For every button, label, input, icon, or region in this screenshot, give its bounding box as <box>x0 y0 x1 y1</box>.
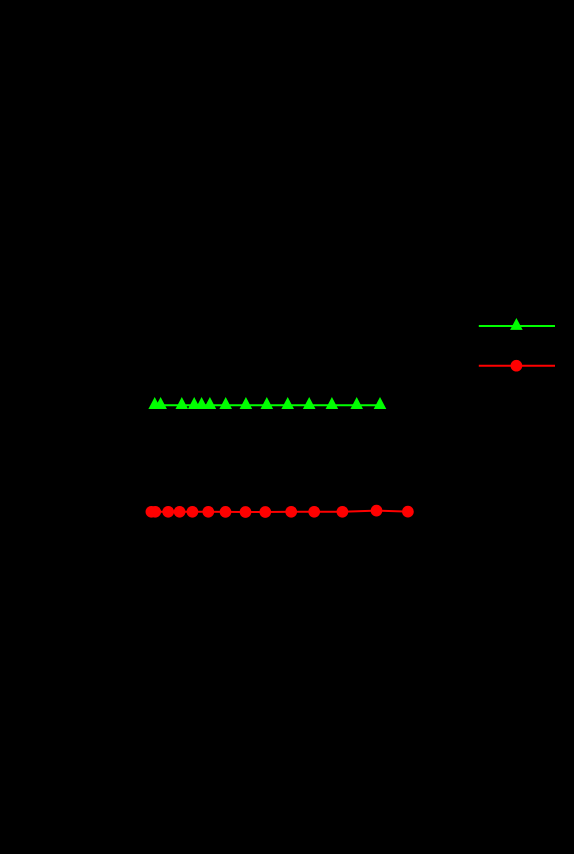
red circle marker 12 <box>337 506 349 518</box>
legend green triangle marker <box>510 318 523 330</box>
green triangle marker 6 <box>204 397 217 409</box>
legend green sample line <box>479 325 555 327</box>
green triangle marker 12 <box>326 397 339 409</box>
red circle marker 10 <box>285 506 297 518</box>
green triangle marker 4 <box>188 397 201 409</box>
green triangle marker 2 <box>154 397 167 409</box>
red circle marker 6 <box>202 506 214 518</box>
green triangle marker 5 <box>195 397 208 409</box>
green series polyline <box>155 404 380 406</box>
red circle marker 8 <box>240 506 252 518</box>
red circle marker 7 <box>220 506 232 518</box>
green triangle marker 13 <box>350 397 363 409</box>
green triangle marker 1 <box>148 397 161 409</box>
red circle marker 2 <box>149 506 161 518</box>
red circle marker 13 <box>371 505 383 517</box>
green triangle marker 14 <box>374 397 387 409</box>
red circle marker 4 <box>174 506 186 518</box>
red circle marker 1 <box>146 506 158 518</box>
red circle marker 11 <box>308 506 320 518</box>
green triangle marker 9 <box>261 397 274 409</box>
legend red sample line <box>479 365 555 367</box>
red circle marker 14 <box>402 506 414 518</box>
green triangle marker 10 <box>281 397 294 409</box>
legend red circle marker <box>511 360 523 372</box>
red circle marker 3 <box>162 506 174 518</box>
red circle marker 9 <box>259 506 271 518</box>
green triangle marker 8 <box>240 397 253 409</box>
green triangle marker 11 <box>303 397 316 409</box>
green triangle marker 7 <box>219 397 232 409</box>
red series polyline <box>151 511 408 512</box>
green triangle marker 3 <box>176 397 189 409</box>
red circle marker 5 <box>187 506 199 518</box>
